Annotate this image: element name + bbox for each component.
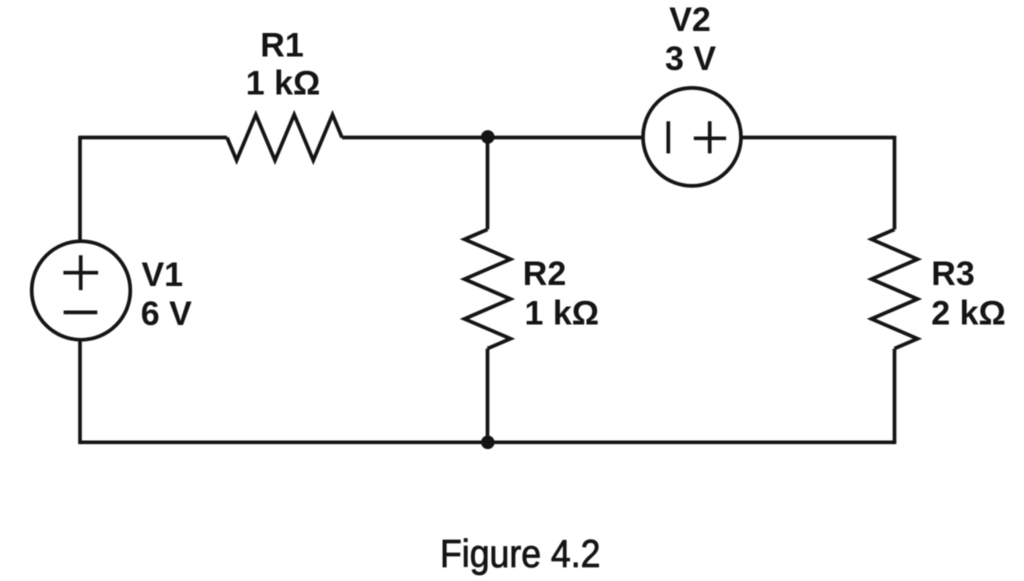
- V2 plus sign: [694, 121, 726, 153]
- resistor R3: [872, 229, 918, 348]
- V1 plus sign: [63, 255, 98, 290]
- wire right vertical lower: [893, 349, 897, 445]
- svg-text:Figure 4.2: Figure 4.2: [440, 533, 601, 576]
- svg-text:R3: R3: [931, 255, 974, 293]
- wire left vertical upper: [78, 136, 82, 241]
- svg-text:3 V: 3 V: [665, 40, 716, 78]
- resistor R2: [465, 229, 511, 348]
- svg-text:2 kΩ: 2 kΩ: [931, 295, 1006, 333]
- wire V2 to top-right corner: [743, 136, 895, 140]
- wire left vertical lower: [78, 342, 82, 445]
- node junction top: [481, 130, 495, 144]
- svg-text:1 kΩ: 1 kΩ: [246, 64, 321, 102]
- V2 minus bar: [666, 121, 670, 153]
- wire R1 to V2: [342, 136, 643, 140]
- wire bottom horizontal: [80, 440, 895, 444]
- V1 minus sign: [64, 311, 98, 315]
- wire middle vertical upper: [486, 138, 490, 230]
- svg-text:V2: V2: [669, 1, 711, 39]
- svg-text:6 V: 6 V: [141, 295, 192, 333]
- wire top-left horizontal: [80, 136, 227, 140]
- node junction bottom: [481, 436, 495, 450]
- svg-text:R2: R2: [523, 255, 566, 293]
- voltage source V1: [32, 241, 131, 340]
- svg-text:V1: V1: [142, 256, 184, 294]
- wire right vertical upper: [893, 136, 897, 230]
- voltage source V2: [643, 88, 741, 186]
- svg-text:1 kΩ: 1 kΩ: [525, 295, 600, 333]
- wire middle vertical lower: [486, 349, 490, 443]
- resistor R1: [227, 115, 342, 161]
- svg-text:R1: R1: [260, 26, 303, 64]
